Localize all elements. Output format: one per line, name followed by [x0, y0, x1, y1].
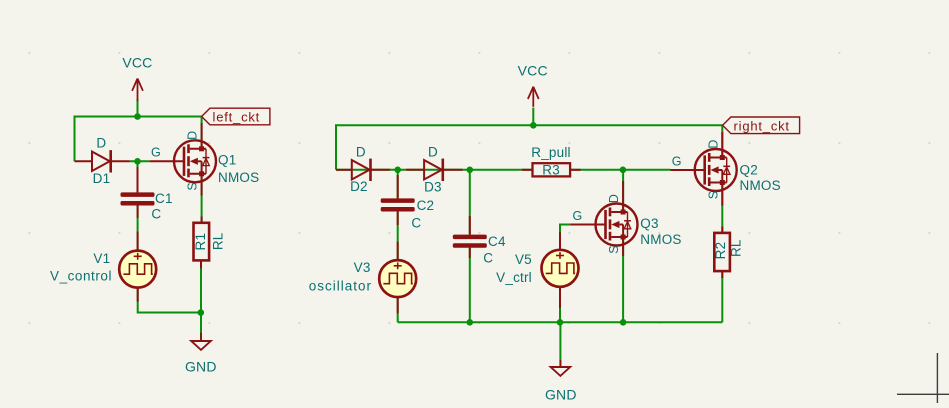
- node: junction bus/C4: [467, 319, 474, 326]
- svg-text:V1: V1: [93, 251, 110, 266]
- power symbol VCC (right): [518, 63, 548, 107]
- svg-text:R1: R1: [193, 233, 208, 251]
- node: junction R3 / Q3 drain: [620, 167, 627, 174]
- svg-text:right_ckt: right_ckt: [734, 118, 790, 133]
- svg-text:G: G: [151, 146, 161, 160]
- wire: D3 node down to C4: [469, 170, 471, 235]
- wire: Q3 source down to bus: [622, 237, 624, 322]
- svg-text:left_ckt: left_ckt: [213, 110, 261, 125]
- wire: Q1 source down to R1: [201, 174, 203, 223]
- wire: R3 right to Q2 gate: [570, 169, 670, 171]
- svg-text:D: D: [706, 139, 720, 148]
- svg-text:RL: RL: [210, 232, 225, 250]
- svg-text:S: S: [706, 191, 720, 200]
- svg-text:D: D: [607, 194, 621, 203]
- svg-text:VCC: VCC: [122, 55, 152, 71]
- wire: left vertical drop to D1 anode: [74, 116, 76, 162]
- wire: left top rail: [75, 116, 202, 118]
- node: gate junction (left): [134, 158, 141, 165]
- svg-text:RL: RL: [728, 239, 743, 257]
- wire: V5 bottom to bus: [559, 287, 561, 323]
- svg-text:V_control: V_control: [50, 268, 112, 283]
- svg-text:C4: C4: [488, 234, 506, 249]
- wire: right top rail: [336, 125, 723, 170]
- wire: Q2 drain up to rail: [721, 125, 723, 157]
- ground GND (left): [185, 333, 217, 375]
- svg-text:Q1: Q1: [218, 153, 236, 168]
- svg-text:NMOS: NMOS: [218, 170, 259, 185]
- svg-text:D: D: [96, 136, 106, 151]
- svg-text:S: S: [186, 182, 200, 191]
- capacitor C2: [381, 175, 435, 260]
- svg-text:R3: R3: [542, 162, 560, 177]
- diode D1: [75, 136, 130, 187]
- wire: C4 bottom to bus: [469, 248, 471, 323]
- svg-text:D: D: [428, 144, 438, 159]
- svg-text:GND: GND: [545, 387, 577, 403]
- svg-text:Q2: Q2: [740, 163, 758, 178]
- transistor Q1 NMOS: [150, 123, 259, 196]
- wire: C2 to V3: [397, 212, 399, 260]
- svg-text:C: C: [411, 216, 421, 231]
- node: junction VCC right rail: [530, 122, 537, 129]
- voltage source V5 (V_ctrl): [496, 232, 578, 308]
- wire: V1 bottom to lower-left corner node: [138, 288, 201, 313]
- svg-text:VCC: VCC: [518, 63, 548, 79]
- wire: diode row left of R3: [336, 169, 533, 171]
- svg-text:G: G: [573, 209, 583, 223]
- global label right_ckt: [723, 117, 800, 134]
- svg-text:V3: V3: [354, 260, 371, 275]
- voltage source V3 (oscillator): [309, 260, 416, 313]
- transistor Q2 NMOS: [671, 132, 781, 206]
- svg-text:D: D: [356, 144, 366, 159]
- wire: VCC stem to top rail (left): [137, 99, 139, 117]
- grid dots (decorative): [28, 52, 930, 324]
- svg-text:Q3: Q3: [640, 216, 658, 231]
- svg-text:D3: D3: [424, 179, 442, 194]
- svg-text:C2: C2: [417, 198, 435, 213]
- ground GND (right): [545, 360, 577, 403]
- wire: VCC stem (right): [532, 108, 534, 126]
- svg-text:D: D: [186, 131, 200, 140]
- wire: D2 node down to C2: [397, 170, 399, 199]
- transistor Q3 NMOS: [570, 181, 681, 256]
- wire: C1 to V1: [137, 206, 139, 251]
- resistor R1: [193, 216, 226, 268]
- diode D3: [406, 144, 462, 194]
- wire: V3 bottom to bus: [397, 297, 399, 322]
- svg-text:V5: V5: [515, 252, 532, 267]
- sheet frame corner: [897, 353, 949, 403]
- svg-text:R_pull: R_pull: [531, 145, 570, 160]
- capacitor C1: [121, 167, 173, 251]
- wire: Q3 drain up to row: [622, 170, 624, 212]
- svg-text:G: G: [672, 154, 682, 168]
- svg-text:V_ctrl: V_ctrl: [496, 270, 532, 285]
- svg-text:D2: D2: [350, 179, 368, 194]
- resistor R3 (R_pull): [522, 145, 581, 177]
- svg-text:R2: R2: [713, 242, 728, 260]
- node: junction bus/V5/GND: [557, 319, 564, 326]
- wire: lower node to GND: [200, 313, 202, 342]
- node: junction bottom-left: [198, 309, 205, 316]
- svg-text:D1: D1: [93, 171, 111, 186]
- global label left_ckt: [202, 108, 270, 125]
- wire: GND stem (right): [559, 322, 561, 367]
- node: junction D2/C2: [394, 167, 401, 174]
- wire: R1 bottom to lower node: [200, 261, 202, 313]
- node: junction bus/Q3 source: [620, 319, 627, 326]
- wire: R2 bottom to bus: [721, 272, 723, 323]
- svg-text:C: C: [151, 207, 161, 222]
- wire: V5 top to Q3 gate: [560, 225, 570, 250]
- resistor R2: [713, 227, 743, 279]
- wire: Q2 source down to R2: [721, 183, 723, 233]
- power symbol VCC (left): [122, 55, 152, 101]
- svg-text:NMOS: NMOS: [640, 232, 681, 247]
- capacitor C4: [453, 216, 506, 265]
- svg-text:C: C: [483, 250, 493, 265]
- svg-text:GND: GND: [185, 358, 217, 374]
- wire: D1 cathode to gate node: [130, 160, 151, 162]
- node: junction VCC / top rail: [134, 113, 141, 120]
- svg-text:NMOS: NMOS: [740, 178, 781, 193]
- node: junction D3/C4: [467, 167, 474, 174]
- wire: bottom bus: [398, 321, 723, 323]
- diode D2: [336, 144, 390, 194]
- svg-text:C1: C1: [155, 191, 173, 206]
- wire: Q1 drain up to rail: [201, 117, 203, 149]
- wire: gate node down to C1: [137, 161, 139, 192]
- voltage source V1 (pulse): [50, 251, 156, 302]
- svg-text:S: S: [607, 245, 621, 254]
- svg-text:oscillator: oscillator: [309, 278, 372, 293]
